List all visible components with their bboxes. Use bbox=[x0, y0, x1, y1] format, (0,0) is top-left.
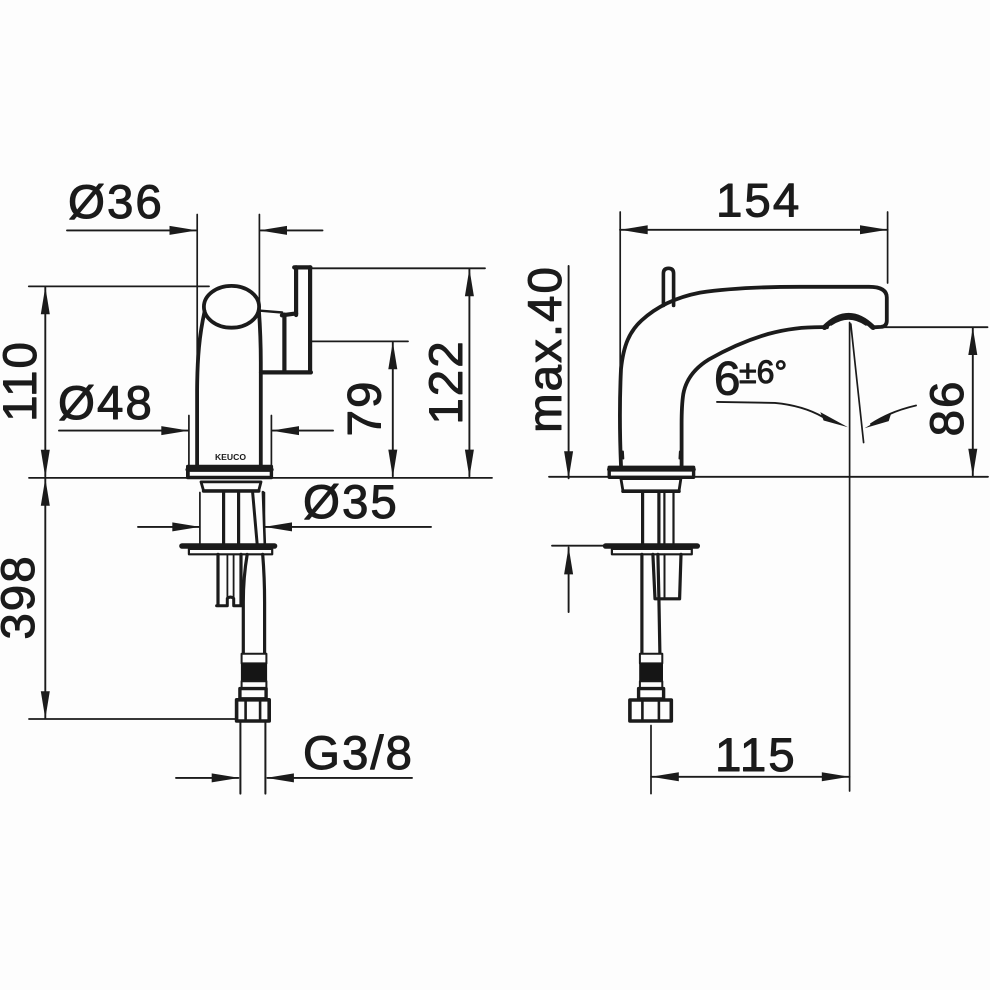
arrow Ø35 right-pointing bbox=[172, 522, 200, 531]
dim line max.40 lower bbox=[568, 548, 570, 613]
supply pipe lines bbox=[240, 721, 265, 793]
hose right view right edge bbox=[658, 554, 660, 653]
svg-text:122: 122 bbox=[420, 339, 473, 424]
ext line Ø35 right bbox=[263, 493, 265, 545]
spray tilted line bbox=[851, 324, 864, 443]
svg-text:±6°: ±6° bbox=[739, 354, 787, 390]
dim line Ø48 right bbox=[273, 430, 334, 432]
arrow Ø48 left-pointing bbox=[271, 426, 299, 435]
body left edge bbox=[197, 312, 205, 466]
arrow 122 down bbox=[465, 450, 474, 478]
arrow 6±6° right-pointing bbox=[820, 412, 848, 427]
ref line 122 top bbox=[311, 267, 485, 269]
connector nut right view bbox=[630, 700, 671, 721]
spout outlet inner arc bbox=[831, 319, 866, 325]
braid lower band bbox=[242, 681, 267, 688]
dim line max.40 upper bbox=[568, 266, 570, 478]
dim line 154 bbox=[620, 229, 888, 231]
dim line 398 bbox=[44, 479, 46, 719]
ext line 154 right bbox=[887, 212, 889, 283]
connector ferrule bbox=[240, 689, 266, 699]
supply centerline right view bbox=[650, 726, 652, 794]
arrow max.40 down bbox=[564, 451, 573, 479]
arrow G3/8 right-pointing bbox=[212, 773, 240, 782]
arrow Ø35 left-pointing bbox=[264, 522, 292, 531]
base plate bbox=[188, 467, 272, 478]
ext line Ø48 left bbox=[188, 416, 190, 478]
svg-text:79: 79 bbox=[339, 380, 392, 437]
spout underside inner curve bbox=[682, 327, 827, 466]
arrow 154 left-pointing bbox=[620, 225, 648, 234]
counter line left view bbox=[29, 477, 492, 479]
shank tier trapezoid bbox=[201, 482, 261, 491]
arrow Ø48 right-pointing bbox=[161, 426, 189, 435]
leader line 6±6° left bbox=[717, 402, 823, 417]
svg-text:Ø36: Ø36 bbox=[68, 176, 164, 229]
dim line Ø48 left bbox=[59, 430, 188, 432]
handle step bbox=[282, 313, 296, 315]
arrow G3/8 left-pointing bbox=[266, 773, 294, 782]
svg-text:Ø35: Ø35 bbox=[303, 476, 399, 529]
arrow 6±6° left-pointing bbox=[865, 413, 892, 429]
arrow Ø36 left-pointing bbox=[259, 226, 287, 235]
dim line 79 bbox=[392, 343, 394, 477]
dim line G3/8 right bbox=[267, 777, 412, 779]
ref line 79 bbox=[311, 340, 408, 342]
svg-text:Ø48: Ø48 bbox=[58, 377, 154, 430]
lower flange lip right view bbox=[612, 549, 692, 554]
ext line Ø48 right bbox=[270, 416, 272, 478]
dim line 115 bbox=[651, 776, 849, 778]
mounting bracket inner lines bbox=[227, 554, 233, 597]
lower flange bar right view bbox=[606, 543, 698, 549]
dim line 122 bbox=[468, 269, 470, 476]
connector nut bbox=[237, 700, 270, 721]
ref line 110 top bbox=[29, 285, 209, 287]
connector ferrule right view bbox=[639, 689, 664, 699]
nut facet lines bbox=[246, 702, 261, 720]
handle blade left edge bbox=[294, 267, 298, 315]
faucet top cap ellipse bbox=[204, 286, 259, 328]
handle blade right edge bbox=[308, 267, 312, 372]
arrow 86 down bbox=[968, 449, 977, 477]
ref line 398 bottom bbox=[29, 718, 236, 720]
svg-text:154: 154 bbox=[716, 175, 801, 228]
ref line 86 top bbox=[884, 326, 988, 328]
arrow 115 left-pointing bbox=[651, 772, 679, 781]
ext line 154 left bbox=[619, 212, 621, 371]
arrow 79 down bbox=[388, 450, 397, 478]
handle stem top line bbox=[259, 311, 282, 313]
arrow Ø36 right-pointing bbox=[170, 226, 198, 235]
hose upper right edge bbox=[263, 492, 265, 543]
arrow 110 up bbox=[41, 287, 50, 315]
hose right view left edge bbox=[640, 554, 643, 653]
ref line max.40 lower bbox=[552, 545, 699, 547]
under-deck rod right bbox=[237, 492, 240, 543]
hose left edge bbox=[243, 554, 247, 653]
braid dark band bbox=[241, 663, 267, 681]
svg-text:KEUCO: KEUCO bbox=[215, 452, 246, 462]
braid lower band right view bbox=[640, 681, 662, 688]
nut facet lines right view bbox=[642, 702, 659, 720]
dim line G3/8 left bbox=[176, 777, 238, 779]
escutcheon flange bar bbox=[182, 543, 275, 549]
hose upper left edge bbox=[253, 492, 258, 543]
spout outlet bump bbox=[825, 315, 874, 327]
handle bottom edge bbox=[261, 370, 311, 374]
arrow 398 down bbox=[41, 691, 50, 719]
svg-text:115: 115 bbox=[715, 729, 797, 782]
handle blade top bbox=[294, 265, 310, 269]
base plate top bold edge bbox=[188, 467, 272, 472]
spray vertical line bbox=[849, 323, 851, 792]
arrow 154 right-pointing bbox=[860, 225, 888, 234]
mounting block inner line bbox=[664, 554, 666, 598]
handle stem inner edge bbox=[282, 315, 286, 371]
dim line Ø35 right bbox=[266, 526, 432, 528]
pin on spout top bbox=[663, 268, 673, 305]
arrow 86 up bbox=[968, 327, 977, 355]
ext line Ø36 right bbox=[258, 215, 260, 312]
arrow 122 up bbox=[465, 269, 474, 297]
arrow 79 up bbox=[388, 342, 397, 370]
svg-text:max.40: max.40 bbox=[519, 265, 572, 433]
body base tick right bbox=[679, 452, 681, 459]
mounting bracket bottom notch bbox=[217, 597, 243, 606]
mounting bracket right bbox=[239, 554, 242, 605]
mounting bracket left bbox=[216, 554, 219, 605]
dim line Ø35 left bbox=[138, 526, 199, 528]
ext line Ø36 left bbox=[196, 215, 198, 413]
braid dark band right view bbox=[639, 663, 663, 681]
braid upper band bbox=[242, 654, 267, 664]
threaded shank lines bbox=[643, 492, 659, 543]
spout body outline bbox=[620, 287, 887, 466]
arrow 110 down bbox=[41, 450, 50, 478]
ext line Ø35 left bbox=[199, 493, 201, 545]
dim line 110 bbox=[44, 288, 46, 477]
shank tier right view bbox=[621, 479, 681, 491]
dim line Ø36 left bbox=[67, 229, 196, 231]
arrow 398 up bbox=[41, 478, 50, 506]
arrow max.40 up bbox=[564, 547, 573, 575]
escutcheon top bold edge bbox=[609, 467, 693, 471]
dim line Ø36 right bbox=[261, 229, 323, 231]
body right edge bbox=[259, 310, 261, 466]
arrow 115 right-pointing bbox=[822, 772, 850, 781]
counter line right view bbox=[549, 476, 988, 478]
svg-text:110: 110 bbox=[0, 340, 47, 422]
svg-text:G3/8: G3/8 bbox=[303, 727, 414, 780]
shank tier bottom bold bbox=[204, 489, 259, 493]
body base tick left bbox=[622, 452, 624, 459]
escutcheon right view bbox=[609, 467, 693, 477]
dim line 86 bbox=[972, 328, 974, 475]
hose right edge bbox=[263, 554, 265, 653]
leader line 6±6° right bbox=[871, 406, 916, 425]
escutcheon flange lip bbox=[189, 549, 272, 554]
mounting block right view bbox=[653, 554, 681, 598]
under-deck rod left bbox=[222, 492, 225, 543]
svg-text:86: 86 bbox=[921, 380, 974, 437]
braid upper band right view bbox=[640, 654, 662, 664]
shank tier bottom bold right view bbox=[623, 489, 679, 493]
svg-text:398: 398 bbox=[0, 554, 45, 639]
